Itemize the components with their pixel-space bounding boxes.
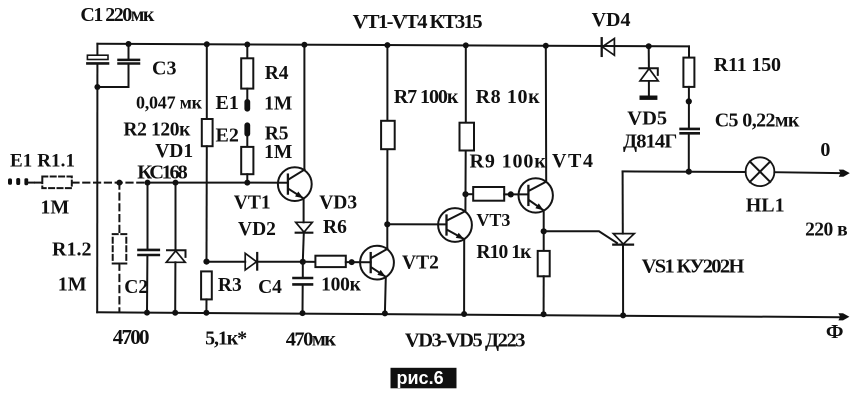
wire VT4 emitter to R10: [543, 211, 545, 251]
svg-text:Д814Г: Д814Г: [623, 131, 677, 153]
node bottom rail VT2 emitter: [382, 310, 388, 316]
node C5/0-line: [686, 169, 692, 175]
node top rail VT4 collector: [543, 43, 549, 49]
resistor R11: [683, 58, 694, 87]
touch plate E2 (gap sensor lower): [244, 122, 250, 136]
svg-text:R3: R3: [218, 275, 242, 296]
wire E1 lead: [28, 182, 34, 184]
wire R9 right lead to VT4 base: [504, 193, 528, 195]
capacitor C1 (electrolytic, hollow top plate): [87, 55, 108, 59]
arrow 0-line: [839, 170, 850, 177]
node bottom rail VS1: [620, 312, 626, 318]
wire R6 to VT2 base: [346, 261, 371, 263]
svg-text:VD5: VD5: [627, 108, 667, 130]
wire C1 branch top: [96, 44, 98, 55]
node bottom rail R10: [541, 311, 547, 317]
resistor R1.2 (dashed): [113, 234, 127, 263]
wire 0-line output: [774, 171, 839, 174]
svg-text:VT3: VT3: [476, 210, 510, 230]
transistor VT2: [360, 246, 394, 280]
wire R10 bottom lead: [543, 276, 545, 314]
resistor R6: [315, 256, 345, 267]
node base line C2: [145, 180, 151, 186]
wire R4 chain top lead: [246, 45, 248, 59]
node R11/C5: [686, 98, 692, 104]
svg-text:КС168: КС168: [137, 162, 188, 184]
wire node A to R6: [303, 261, 316, 263]
svg-text:R8 10к: R8 10к: [476, 86, 540, 108]
svg-text:VT1-VT4 КТ315: VT1-VT4 КТ315: [353, 11, 483, 33]
node bottom rail R3: [203, 310, 209, 316]
resistor R3: [201, 271, 212, 299]
wire C5 to 0-line: [688, 134, 690, 172]
capacitor C4: [294, 278, 313, 284]
node R6/VT2 base: [349, 259, 355, 265]
wire VT3 base line: [387, 223, 446, 225]
svg-text:R4: R4: [265, 63, 289, 84]
wire VT1 emitter to VD3: [303, 199, 305, 223]
svg-text:E1 R1.1: E1 R1.1: [10, 151, 75, 172]
zener diode VD5: [640, 68, 658, 75]
wire C2 branch: [146, 183, 149, 313]
node R9/VT4 base: [508, 191, 514, 197]
node top rail C3: [126, 41, 132, 47]
capacitor C5: [681, 129, 699, 133]
node bottom rail C4: [300, 310, 306, 316]
node VT4 emitter / gate tap: [541, 228, 547, 234]
wire 0-line corner down to VS1 anode: [622, 172, 624, 234]
svg-text:R11 150: R11 150: [714, 54, 781, 76]
svg-text:R2 120к: R2 120к: [123, 120, 191, 141]
svg-text:VS1 КУ202Н: VS1 КУ202Н: [642, 256, 745, 278]
node bottom rail VD1: [172, 310, 178, 316]
wire VT2 emitter to rail: [384, 277, 387, 313]
wire sensor base line (solid): [148, 182, 288, 184]
svg-text:100к: 100к: [321, 275, 362, 296]
svg-text:VT4: VT4: [552, 150, 593, 172]
wire VT3 emitter to rail: [463, 239, 465, 314]
svg-text:рис.6: рис.6: [397, 368, 444, 388]
wire VD5 branch: [648, 46, 650, 95]
node R3 top / VD2: [203, 259, 209, 265]
wire dashed sensor line to base line: [72, 182, 147, 184]
touch plate E1 (left sensor electrode): [8, 178, 28, 185]
svg-text:R6: R6: [323, 217, 347, 238]
node top rail R7: [384, 42, 390, 48]
svg-text:0,047 мк: 0,047 мк: [136, 93, 203, 113]
resistor R7: [381, 121, 395, 149]
svg-text:1М: 1М: [40, 196, 69, 218]
touch plate E1 (gap sensor upper): [244, 99, 250, 112]
zener diode VD1 KC168: [167, 250, 186, 257]
resistor R10: [538, 251, 550, 276]
capacitor C2: [139, 250, 159, 255]
wire R11 corner from rail: [688, 46, 690, 57]
svg-text:E1: E1: [216, 92, 239, 114]
svg-text:Ф: Ф: [826, 321, 844, 343]
svg-text:C2: C2: [124, 277, 148, 298]
wire R9 left lead: [466, 193, 474, 195]
wire node A to C4: [302, 262, 304, 277]
chassis bar under VD5: [640, 96, 658, 100]
resistor R1.1 (dashed): [42, 177, 72, 189]
wire VT3 collector: [464, 194, 466, 211]
svg-text:R1.2: R1.2: [52, 239, 91, 261]
node A: [300, 259, 306, 265]
svg-text:VD3-VD5 Д223: VD3-VD5 Д223: [405, 330, 526, 352]
lamp HL1: [746, 157, 775, 186]
svg-text:1М: 1М: [264, 142, 292, 163]
wire VS1 cathode to rail: [622, 245, 624, 316]
svg-text:0: 0: [820, 139, 830, 161]
diode VD4 on rail: [601, 38, 603, 56]
wire R8 branch from rail: [465, 45, 467, 194]
wire bottom rail (phase): [97, 312, 840, 317]
node base line VD1: [173, 180, 179, 186]
svg-text:VT1: VT1: [234, 192, 271, 213]
wire VT1 collector from rail: [303, 45, 305, 170]
svg-text:5,1к*: 5,1к*: [205, 328, 247, 350]
wire R4 to E1 electrode: [246, 89, 248, 100]
wire R7 branch from rail to VT2 collector: [386, 45, 388, 249]
svg-text:E2: E2: [216, 125, 239, 147]
wire C1 branch down to bottom rail: [96, 64, 98, 313]
svg-text:220 в: 220 в: [805, 220, 848, 241]
svg-text:C5 0,22мк: C5 0,22мк: [715, 109, 800, 131]
wire dashed R1.2 upper lead: [118, 183, 120, 235]
thyristor VS1: [613, 234, 634, 245]
wire 0-line to lamp: [623, 170, 746, 173]
node C1/C3 junction: [94, 84, 100, 90]
svg-text:4700: 4700: [113, 325, 150, 349]
resistor R4: [241, 58, 253, 88]
wire VS1 gate: [544, 231, 617, 243]
wire dashed lead into R1.1: [35, 182, 42, 184]
transistor VT1: [278, 167, 312, 201]
wire C4 bottom lead: [302, 285, 304, 314]
node top rail R2: [204, 41, 210, 47]
node top rail VT1 collector: [301, 42, 307, 48]
resistor R8: [460, 123, 475, 151]
wire R2 top lead from rail: [206, 44, 208, 119]
node R8/R9/VT3 collector: [462, 191, 468, 197]
svg-text:VT2: VT2: [402, 253, 439, 274]
node R1.2 tap: [116, 180, 122, 186]
node top rail VD5: [646, 43, 652, 49]
svg-text:VD1: VD1: [155, 141, 193, 162]
svg-text:1М: 1М: [264, 93, 292, 114]
svg-text:R9 100к: R9 100к: [470, 151, 547, 173]
diode VD2: [245, 253, 256, 270]
wire VT4 collector from rail: [545, 46, 547, 182]
svg-text:R10 1к: R10 1к: [476, 242, 532, 263]
svg-text:C4: C4: [258, 277, 282, 298]
svg-text:VD2: VD2: [238, 219, 276, 240]
node bottom rail VT3 emitter: [461, 311, 467, 317]
transistor VT4: [519, 178, 553, 212]
figure caption box: [391, 368, 457, 389]
resistor R2: [202, 119, 213, 146]
wire dashed R1.2 lower lead: [118, 264, 120, 312]
wire E2 to R5: [246, 137, 248, 147]
node base line R5: [244, 180, 250, 186]
arrow phase rail: [838, 313, 849, 320]
wire R3 bottom lead: [205, 299, 207, 312]
svg-text:VD3: VD3: [319, 192, 357, 213]
diode VD3: [296, 222, 313, 232]
svg-text:1М: 1М: [58, 273, 87, 295]
wire VD1 branch: [174, 183, 176, 313]
wire top supply rail: [97, 44, 689, 47]
node bottom rail C2: [144, 310, 150, 316]
wire R5 bottom lead: [246, 174, 248, 182]
node top rail R4: [244, 42, 250, 48]
node top rail R8: [463, 42, 469, 48]
resistor R9: [473, 187, 504, 201]
svg-text:VD4: VD4: [592, 9, 631, 31]
svg-text:C3: C3: [152, 58, 176, 80]
node VT2 collector / VT3 base: [384, 221, 390, 227]
svg-text:R7 100к: R7 100к: [394, 86, 459, 108]
resistor R5: [241, 147, 253, 174]
wire R2-R3 link crossing base line: [206, 146, 208, 261]
wire C3 branch: [97, 44, 128, 87]
wire VD3 cathode to node A: [303, 233, 304, 262]
wire VD2 cathode to node A: [257, 261, 303, 263]
svg-text:470мк: 470мк: [286, 329, 337, 351]
transistor VT3: [438, 208, 472, 242]
capacitor C1 solid bottom plate: [87, 62, 108, 65]
svg-text:HL1: HL1: [746, 195, 785, 217]
wire VD2 anode lead: [207, 261, 246, 263]
svg-text:C1 220мк: C1 220мк: [80, 4, 154, 26]
wire R11 to C5: [688, 87, 690, 128]
capacitor C3: [119, 60, 140, 64]
